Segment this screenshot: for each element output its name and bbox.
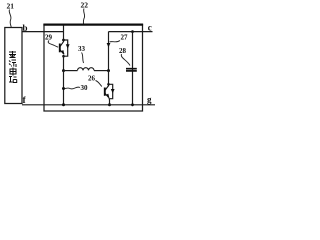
label 29 <box>45 34 58 48</box>
svg-text:27: 27 <box>121 34 129 42</box>
box 22 top edge thick <box>43 24 143 26</box>
wire c (top horizontal to terminal c) <box>109 31 153 33</box>
svg-text:c: c <box>148 23 152 33</box>
transistor Q29 collector stub <box>63 26 65 41</box>
rectifier circuit box 21 <box>5 28 22 104</box>
svg-text:22: 22 <box>81 1 89 10</box>
svg-text:f: f <box>23 95 27 105</box>
wire Q29 emitter to node A <box>63 56 65 70</box>
label 21 <box>7 2 15 28</box>
transistor Q26 <box>105 85 109 97</box>
transistor Q29 <box>60 41 64 54</box>
rectifier text 整流电路 (drawn glyphs) <box>9 51 17 83</box>
label 27 <box>110 34 129 43</box>
svg-text:g: g <box>147 95 152 105</box>
node B dot <box>107 69 110 72</box>
box 22 outline <box>44 25 143 112</box>
label 22 <box>81 1 89 24</box>
label 30 <box>65 84 88 92</box>
svg-text:26: 26 <box>88 75 96 83</box>
wire node A to inductor <box>64 70 78 72</box>
diode D26 (antiparallel) <box>109 84 113 98</box>
transistor Q26 collector stub <box>108 71 110 85</box>
wire b <box>22 31 64 33</box>
label 26 <box>88 75 102 87</box>
wire 28 vertical <box>132 32 134 105</box>
label 33 <box>78 45 86 63</box>
node dot Q26 collector <box>107 83 110 86</box>
svg-text:21: 21 <box>7 2 15 11</box>
wire f / bottom rail <box>22 104 155 106</box>
label 28 <box>119 47 130 66</box>
node dot Q29 collector <box>62 39 65 42</box>
diode D29 (antiparallel) <box>64 40 68 56</box>
wire Q26 emitter to rail <box>109 99 111 105</box>
wire 30 (node A down to rail) <box>63 71 65 105</box>
node dot wire28 on rail <box>131 103 134 106</box>
wire inductor to node B <box>94 70 109 72</box>
svg-text:33: 33 <box>78 45 86 53</box>
svg-text:28: 28 <box>119 47 127 55</box>
node dot Q26 emitter on rail <box>108 103 111 106</box>
diode D29 arrow <box>66 44 70 48</box>
wire 27 vertical (c branch down to node B) <box>108 32 110 71</box>
diode 27 arrow <box>107 43 111 47</box>
svg-text:30: 30 <box>81 84 89 92</box>
node A dot <box>62 69 65 72</box>
node dot 30 <box>62 87 65 90</box>
node dot wire30 on rail <box>62 103 65 106</box>
diode D26 arrow <box>111 89 115 93</box>
capacitor 28 plates <box>126 69 137 71</box>
inductor L33 <box>78 68 95 71</box>
node dot on wire c <box>131 30 134 33</box>
Q26 emitter arrowhead <box>106 94 109 99</box>
Q29 emitter arrowhead <box>61 50 64 55</box>
node dot Q29 emitter <box>62 55 65 58</box>
